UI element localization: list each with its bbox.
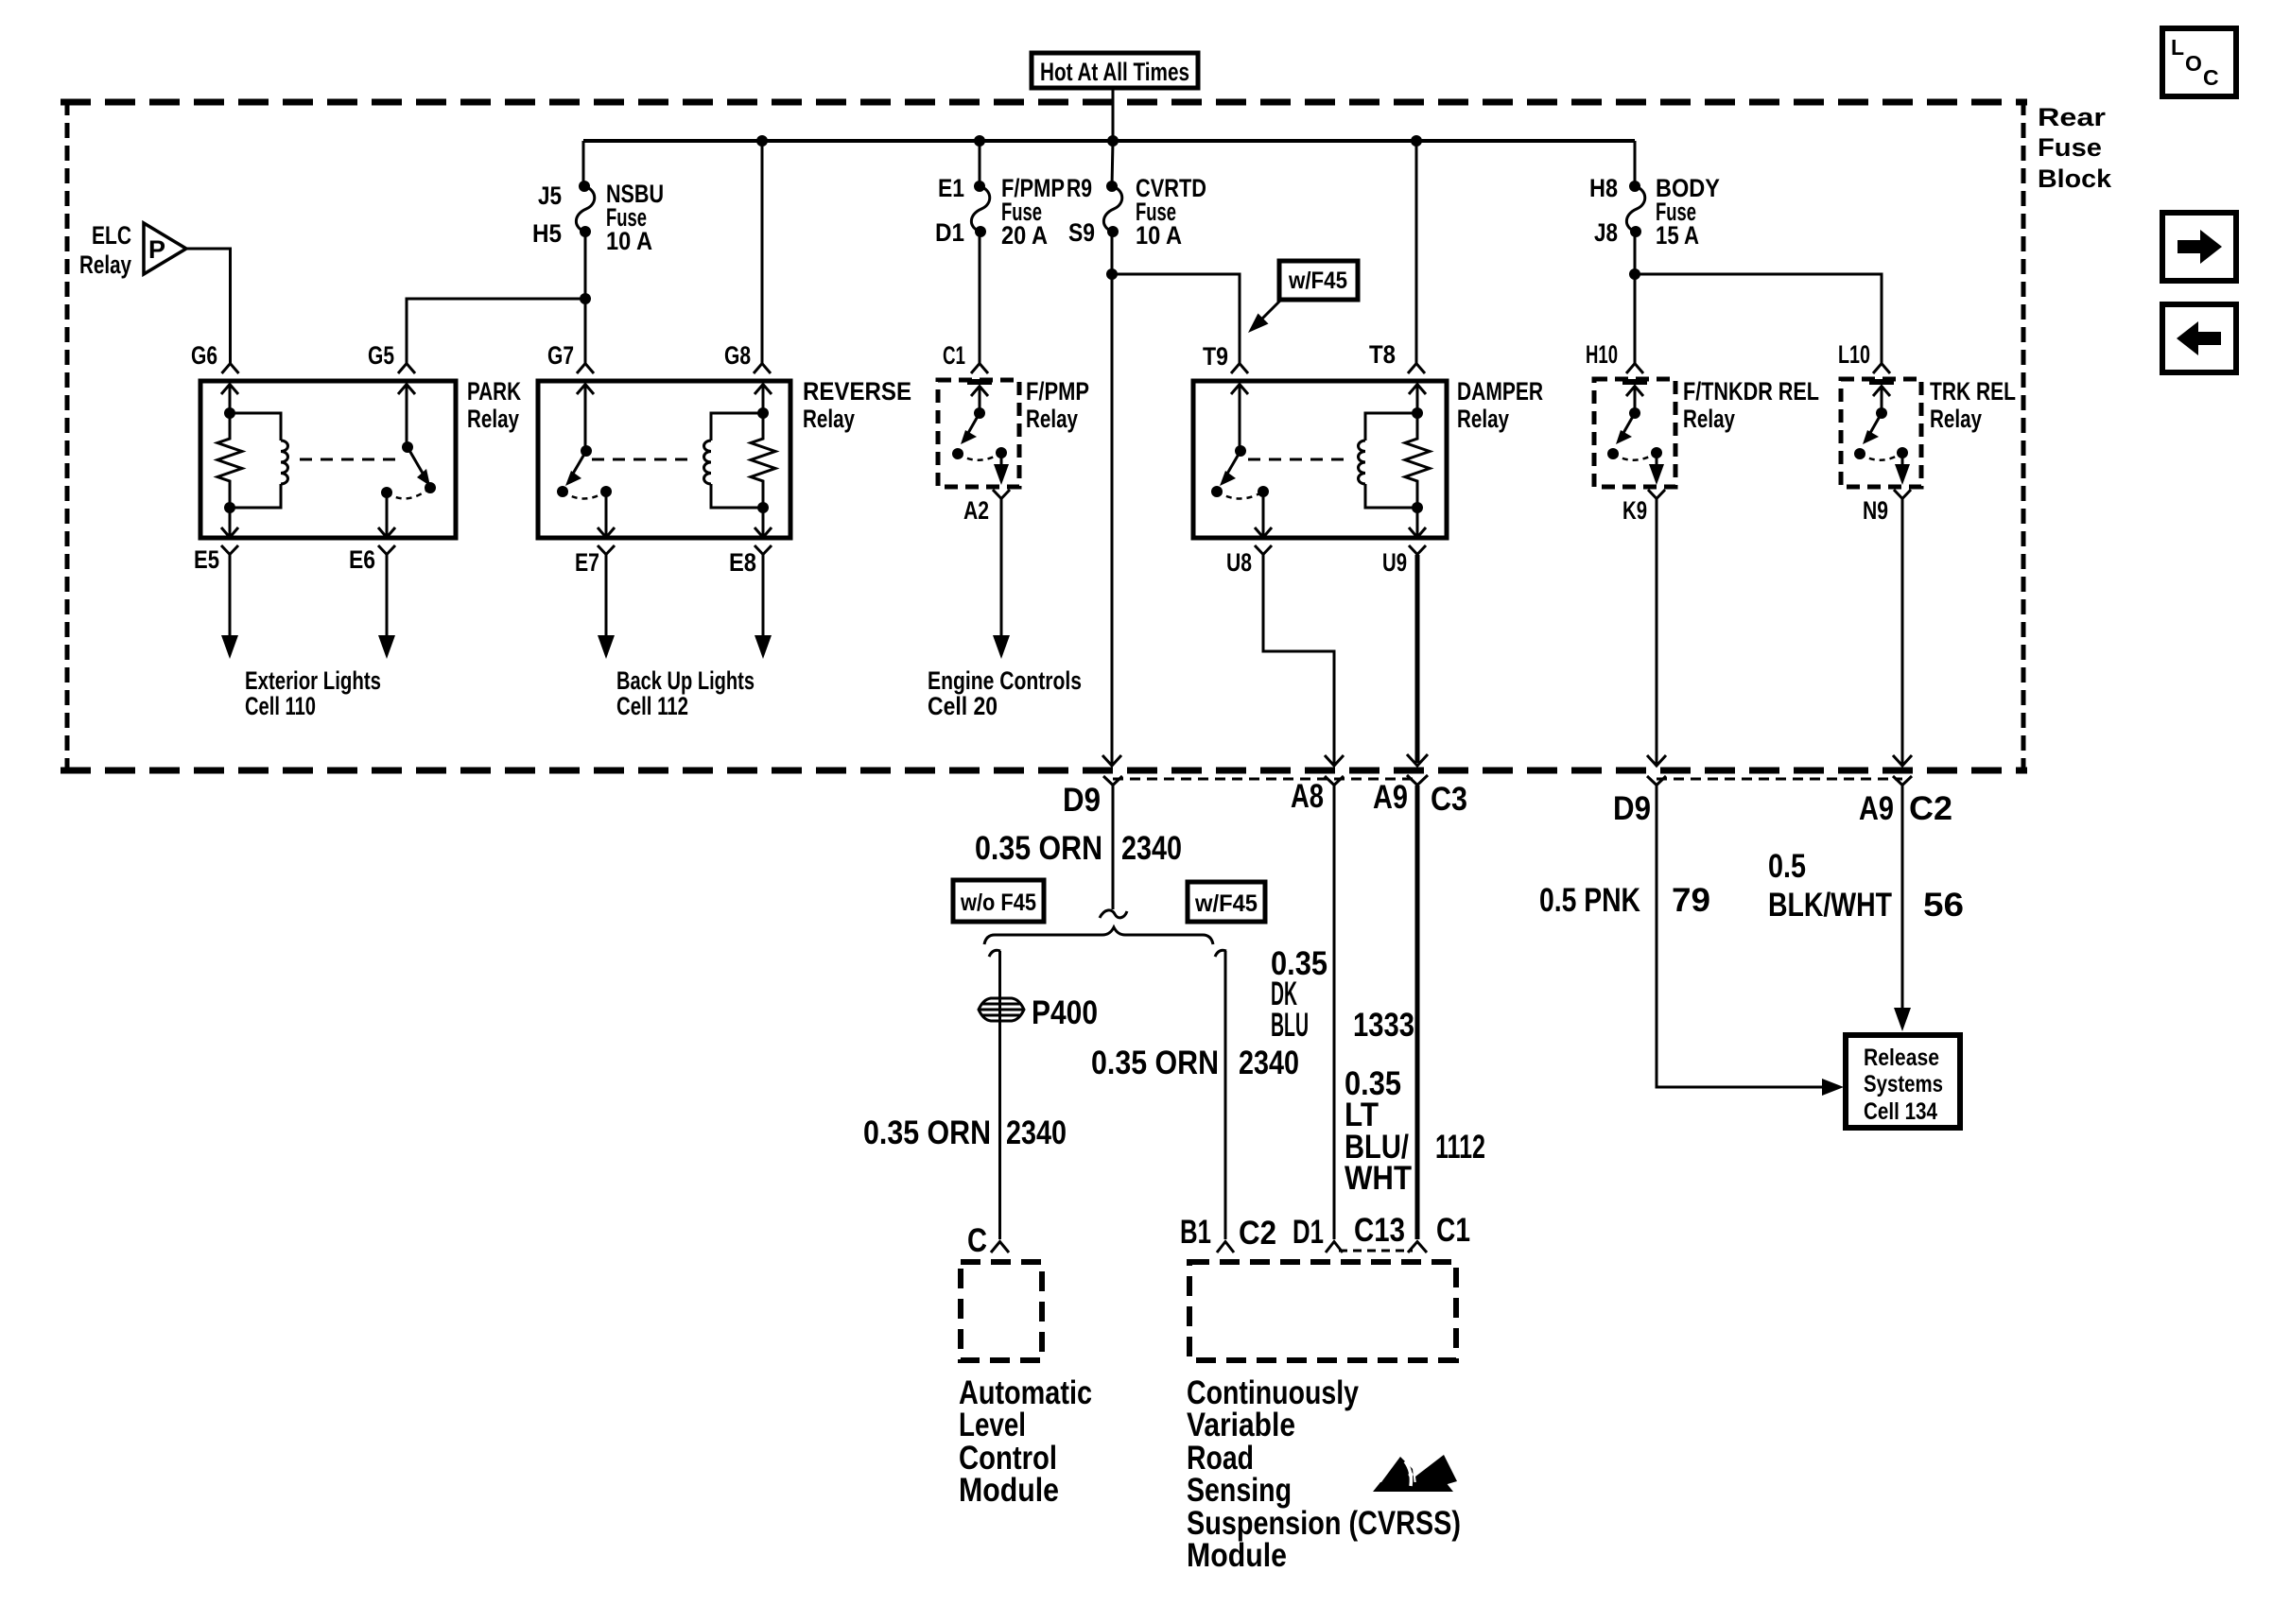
svg-text:O: O <box>2185 51 2202 76</box>
wire G8 drop <box>761 141 764 363</box>
REVERSE switch (G7 pin) <box>557 384 612 499</box>
connector crossing A9 / C2 <box>1859 755 1952 827</box>
PARK coil resistor <box>217 407 242 513</box>
svg-text:G8: G8 <box>724 341 751 370</box>
wire from Hot At All Times to bus <box>1112 88 1115 141</box>
wire branch to T9 <box>1112 274 1240 363</box>
svg-text:H8: H8 <box>1589 174 1618 202</box>
svg-text:Rear: Rear <box>2038 103 2107 131</box>
wire D9 right to Release Systems <box>1657 786 1844 1096</box>
wire w/o F45 branch with break hook <box>989 950 1000 1239</box>
svg-text:Back Up Lights: Back Up Lights <box>616 666 755 695</box>
wire A9 to C13 (heavy) <box>1415 786 1420 1239</box>
module CVRSS dashed box <box>1189 1262 1456 1360</box>
svg-text:1112: 1112 <box>1435 1129 1485 1166</box>
PARK switch (G5 pin) <box>381 384 436 498</box>
junction T8 feed <box>1411 135 1422 147</box>
junction G8 feed <box>756 135 768 147</box>
svg-text:D1: D1 <box>935 218 964 247</box>
svg-text:E8: E8 <box>729 548 756 577</box>
svg-text:A2: A2 <box>963 496 989 525</box>
svg-text:1333: 1333 <box>1353 1007 1414 1044</box>
junction G5 branch <box>580 293 591 304</box>
module Automatic Level Control dashed box <box>961 1262 1042 1360</box>
svg-text:P: P <box>148 235 165 264</box>
svg-text:J8: J8 <box>1594 218 1618 247</box>
wire E7 to Back Up Lights <box>598 555 615 659</box>
svg-text:F/TNKDR REL: F/TNKDR REL <box>1683 377 1819 406</box>
svg-text:D9: D9 <box>1613 790 1651 827</box>
connector C1 <box>943 341 988 373</box>
svg-text:ELC: ELC <box>92 221 131 250</box>
svg-text:79: 79 <box>1672 882 1710 919</box>
svg-text:S9: S9 <box>1068 218 1095 247</box>
callout box w/F45 with arrow <box>1248 261 1358 333</box>
splice P400 <box>979 994 1098 1031</box>
label 0.5 BLK/WHT 56 (N9 wire) <box>1768 848 1964 924</box>
svg-text:G7: G7 <box>547 341 574 370</box>
DAMPER coil output arrow to U9 <box>1409 508 1426 538</box>
node Hot At All Times feed box <box>1032 53 1198 88</box>
connector N9 <box>1863 490 1911 525</box>
connector G5 <box>368 341 415 373</box>
svg-text:0.35 ORN: 0.35 ORN <box>1091 1045 1219 1081</box>
F/TNKDR switch output arrow to K9 <box>1649 453 1664 485</box>
svg-text:L10: L10 <box>1838 340 1870 369</box>
svg-text:Relay: Relay <box>1930 405 1982 433</box>
svg-text:D1: D1 <box>1293 1214 1324 1251</box>
svg-text:Cell 134: Cell 134 <box>1864 1098 1937 1125</box>
connector T8 <box>1369 340 1425 373</box>
connector A2 <box>963 490 1010 525</box>
svg-text:E6: E6 <box>349 545 375 574</box>
svg-text:Release: Release <box>1864 1045 1939 1071</box>
connector E8 <box>729 545 772 577</box>
PARK coil input arrow (G6 pin) <box>221 384 238 413</box>
svg-text:Engine Controls: Engine Controls <box>928 666 1082 695</box>
fuse NSBU 10A (J5/H5) <box>532 180 664 255</box>
wire D9 down with break <box>1100 786 1127 918</box>
brace over option split <box>984 927 1213 944</box>
F/TNKDR switch <box>1607 407 1662 460</box>
REVERSE coil output arrow to E8 <box>755 508 772 538</box>
label 0.5 PNK 79 (K9 wire) <box>1539 882 1710 919</box>
label 0.35 DK BLU / 1333 <box>1271 945 1414 1044</box>
svg-text:w/o F45: w/o F45 <box>960 890 1036 916</box>
wire fuse BODY to H10 <box>1634 232 1637 363</box>
wire branch to G5 <box>407 299 585 363</box>
svg-text:2340: 2340 <box>1121 830 1182 867</box>
fuse BODY 15A (H8/J8) <box>1589 174 1720 250</box>
wire main bus <box>583 139 1635 143</box>
svg-text:H10: H10 <box>1586 340 1618 369</box>
svg-text:C: C <box>967 1222 987 1259</box>
svg-text:B1: B1 <box>1180 1214 1211 1251</box>
connector C at ALC module <box>967 1222 1009 1259</box>
junction CVRTD fuse feed <box>1107 135 1119 147</box>
svg-text:Module: Module <box>959 1472 1059 1509</box>
PARK switch output arrow to E6 <box>378 492 395 538</box>
svg-text:Cell 112: Cell 112 <box>616 692 688 720</box>
relay F/TNKDR REL dashed box <box>1594 377 1819 487</box>
label 0.35 ORN 2340 (B1 wire) <box>1091 1045 1299 1081</box>
svg-text:DAMPER: DAMPER <box>1457 377 1543 406</box>
label 0.35 ORN 2340 (ALC wire) <box>863 1114 1067 1151</box>
label 0.35 LT BLU/ WHT / 1112 <box>1345 1065 1485 1197</box>
wire A8 to D1 <box>1333 786 1336 1239</box>
Rear Fuse Block dashed border <box>61 100 2027 770</box>
connector D1 at CVRSS module <box>1293 1214 1343 1253</box>
svg-text:Exterior Lights: Exterior Lights <box>245 666 381 695</box>
svg-text:E5: E5 <box>194 545 219 574</box>
svg-text:w/F45: w/F45 <box>1288 268 1347 294</box>
svg-text:0.35 ORN: 0.35 ORN <box>863 1114 991 1151</box>
DAMPER relay coil <box>1359 413 1418 508</box>
wire CVRTD fuse drop <box>1112 141 1113 186</box>
connector crossing D9 (right) <box>1613 755 1666 827</box>
box Release Systems Cell 134 <box>1846 1035 1960 1128</box>
svg-text:A9: A9 <box>1373 779 1408 816</box>
relay PARK box <box>200 377 521 538</box>
svg-text:C3: C3 <box>1431 781 1467 818</box>
DAMPER coil input arrow (T8 pin) <box>1409 384 1426 413</box>
svg-text:N9: N9 <box>1863 496 1888 525</box>
PARK relay coil <box>230 413 288 508</box>
connector E7 <box>575 545 615 577</box>
connector crossing A8 <box>1291 755 1344 815</box>
svg-text:Systems: Systems <box>1864 1071 1943 1097</box>
svg-text:Variable: Variable <box>1187 1407 1295 1443</box>
svg-text:C1: C1 <box>943 341 965 370</box>
relay DAMPER box <box>1193 377 1543 538</box>
REVERSE switch output arrow to E7 <box>598 492 615 538</box>
REVERSE actuation dashed link <box>592 458 696 461</box>
label 0.35 ORN 2340 (D9 wire) <box>975 830 1182 867</box>
LOC page reference box <box>2162 28 2236 96</box>
svg-text:15 A: 15 A <box>1656 221 1699 250</box>
junction F/PMP fuse feed <box>974 135 985 147</box>
svg-text:0.35 ORN: 0.35 ORN <box>975 830 1102 867</box>
REVERSE coil input arrow (G8 pin) <box>755 384 772 413</box>
svg-text:U8: U8 <box>1226 548 1252 577</box>
svg-text:56: 56 <box>1923 887 1964 924</box>
thin dashed connector line D9-A9 <box>1113 778 1417 781</box>
svg-text:WHT: WHT <box>1345 1160 1412 1197</box>
wire E8 to Back Up Lights <box>755 555 772 659</box>
connector L10 <box>1838 340 1890 373</box>
connector E5 <box>194 545 238 574</box>
svg-text:Hot At All Times: Hot At All Times <box>1040 58 1189 86</box>
wire T8 drop <box>1415 141 1418 363</box>
svg-text:Module: Module <box>1187 1537 1287 1574</box>
label Back Up Lights Cell 112 <box>616 666 755 720</box>
connector H10 <box>1586 340 1643 373</box>
relay TRK REL dashed box <box>1841 377 2016 487</box>
label Engine Controls Cell 20 <box>928 666 1082 720</box>
DAMPER switch output arrow to U8 <box>1255 492 1272 538</box>
connector E6 <box>349 545 395 574</box>
wire U8 to A8 crossing <box>1263 555 1334 764</box>
svg-text:C: C <box>2203 65 2219 90</box>
connector B1 / C2 at CVRSS module <box>1180 1214 1276 1253</box>
svg-text:0.5: 0.5 <box>1768 848 1806 885</box>
svg-text:Relay: Relay <box>467 405 519 433</box>
page arrow right box <box>2162 213 2236 281</box>
svg-text:BLU: BLU <box>1271 1007 1309 1044</box>
svg-text:20 A: 20 A <box>1001 221 1048 250</box>
relay REVERSE box <box>538 377 911 538</box>
svg-text:w/F45: w/F45 <box>1194 890 1258 917</box>
svg-text:Relay: Relay <box>803 405 855 433</box>
connector K9 <box>1622 490 1665 525</box>
ELC Relay off-page triangle P <box>79 221 186 279</box>
connector T9 <box>1203 342 1248 373</box>
svg-text:P400: P400 <box>1032 994 1098 1031</box>
label Exterior Lights Cell 110 <box>245 666 381 720</box>
F/PMP switch <box>952 407 1007 460</box>
option box w/o F45 <box>953 880 1044 922</box>
F/TNKDR input bar and arrow (H10 pin) <box>1622 382 1647 413</box>
svg-text:J5: J5 <box>538 181 562 210</box>
page arrow left box <box>2162 304 2236 372</box>
svg-text:Level: Level <box>959 1407 1026 1443</box>
svg-text:T9: T9 <box>1203 342 1228 371</box>
svg-text:G6: G6 <box>191 341 217 370</box>
wire fuse CVRTD down to D9 crossing <box>1111 232 1114 766</box>
DAMPER actuation dashed link <box>1248 458 1350 461</box>
connector G8 <box>724 341 771 373</box>
label Continuously Variable Road Sensing Suspension (CVRSS) Module <box>1187 1374 1461 1574</box>
svg-text:A8: A8 <box>1291 778 1324 815</box>
connector crossing A9 / C3 <box>1373 754 1467 818</box>
connector U8 <box>1226 545 1272 577</box>
svg-text:PARK: PARK <box>467 377 521 406</box>
svg-text:0.5 PNK: 0.5 PNK <box>1539 882 1640 919</box>
F/PMP input bar and arrow (C1 pin) <box>967 382 992 413</box>
PARK actuation dashed link <box>300 458 401 461</box>
svg-text:Cell 110: Cell 110 <box>245 692 316 720</box>
svg-text:R9: R9 <box>1067 174 1092 202</box>
label Automatic Level Control Module <box>959 1374 1092 1509</box>
svg-text:Fuse: Fuse <box>2038 133 2102 162</box>
svg-text:K9: K9 <box>1622 496 1647 525</box>
svg-text:D9: D9 <box>1063 782 1101 819</box>
option box w/F45 <box>1188 882 1265 922</box>
junction T9 branch <box>1106 268 1118 280</box>
TRK REL switch <box>1854 407 1908 460</box>
wire K9 to D9 crossing <box>1656 499 1658 764</box>
label Rear Fuse Block <box>2038 103 2112 193</box>
svg-text:REVERSE: REVERSE <box>803 377 911 406</box>
svg-text:E1: E1 <box>938 174 964 202</box>
DAMPER switch (T9 pin) <box>1211 384 1269 499</box>
svg-text:Relay: Relay <box>1683 405 1735 433</box>
wire F/PMP fuse drop <box>979 141 981 186</box>
svg-text:Block: Block <box>2038 164 2112 193</box>
svg-text:E7: E7 <box>575 548 599 577</box>
fuse CVRTD 10A (R9/S9) <box>1067 174 1206 250</box>
connector U9 <box>1382 545 1426 577</box>
wire N9 to A9 crossing <box>1901 499 1904 764</box>
thin dashed connector line D1-C1 <box>1339 1250 1413 1253</box>
svg-text:C1: C1 <box>1436 1212 1470 1249</box>
svg-text:10 A: 10 A <box>606 227 652 255</box>
svg-text:F/PMP: F/PMP <box>1026 377 1089 406</box>
connector G6 <box>191 341 239 373</box>
svg-text:L: L <box>2171 35 2184 60</box>
relay F/PMP dashed box <box>938 377 1089 487</box>
junction L10 branch <box>1629 268 1640 280</box>
wire BODY fuse drop <box>1634 141 1637 186</box>
wire w/F45 branch with break hook <box>1215 950 1226 1239</box>
svg-text:U9: U9 <box>1382 548 1407 577</box>
fuse F/PMP 20A (E1/D1) <box>935 174 1065 250</box>
wire A9 right down to Release Systems <box>1894 786 1911 1031</box>
svg-text:TRK REL: TRK REL <box>1930 377 2016 406</box>
svg-text:C13: C13 <box>1354 1212 1405 1249</box>
svg-text:A9: A9 <box>1859 790 1894 827</box>
svg-text:10 A: 10 A <box>1136 221 1182 250</box>
svg-text:BLK/WHT: BLK/WHT <box>1768 887 1892 924</box>
svg-text:Relay: Relay <box>1026 405 1078 433</box>
wire NSBU fuse drop <box>582 141 585 186</box>
ESD sensitive device symbol <box>1373 1455 1457 1492</box>
svg-text:2340: 2340 <box>1239 1045 1299 1081</box>
svg-text:Relay: Relay <box>79 251 131 279</box>
svg-text:C2: C2 <box>1239 1215 1276 1252</box>
svg-text:T8: T8 <box>1369 340 1396 369</box>
REVERSE coil resistor <box>751 407 775 513</box>
svg-text:2340: 2340 <box>1006 1114 1067 1151</box>
DAMPER coil resistor <box>1405 407 1430 513</box>
wire U9 to A9 crossing (heavy) <box>1415 555 1420 763</box>
svg-text:Cell 20: Cell 20 <box>928 692 998 720</box>
connector C13 / C1 at CVRSS module <box>1354 1212 1470 1253</box>
wire E6 to Exterior Lights <box>378 555 395 659</box>
wire fuse F/PMP to C1 <box>979 232 981 363</box>
REVERSE relay coil <box>704 413 764 508</box>
svg-text:Relay: Relay <box>1457 405 1509 433</box>
F/PMP switch output arrow to A2 <box>994 453 1009 485</box>
wire fuse NSBU to G7 <box>584 232 587 363</box>
wire ELC to G6 <box>186 249 231 363</box>
thin dashed connector line D9-A9 right <box>1657 778 1902 781</box>
wire branch to L10 <box>1635 274 1882 363</box>
connector crossing D9 at fuse block edge <box>1063 755 1122 819</box>
PARK coil output arrow to E5 <box>221 508 238 538</box>
TRK REL switch output arrow to N9 <box>1895 453 1910 485</box>
svg-text:G5: G5 <box>368 341 394 370</box>
wire E5 to Exterior Lights <box>221 555 238 659</box>
svg-text:H5: H5 <box>532 219 562 248</box>
TRK REL input bar and arrow (L10 pin) <box>1869 382 1894 413</box>
wire A2 to Engine Controls <box>993 499 1010 659</box>
svg-text:Sensing: Sensing <box>1187 1472 1292 1509</box>
connector G7 <box>547 341 594 373</box>
svg-text:C2: C2 <box>1909 790 1952 827</box>
